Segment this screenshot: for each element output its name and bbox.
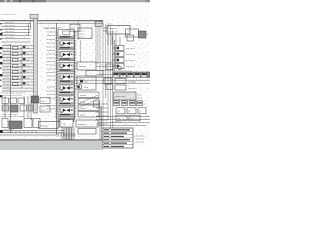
switch diagonal: [20, 65, 23, 68]
terminal mark: [0, 80, 2, 81]
right wide top box: [107, 26, 130, 35]
connector box: [13, 71, 19, 74]
wire: [2, 60, 34, 62]
left vertical bus: [10, 44, 12, 133]
right small top box: [95, 22, 102, 27]
wire: [2, 51, 34, 53]
center box J: [78, 129, 96, 135]
relay blob: [23, 58, 26, 61]
top-left wire group: [1, 24, 31, 43]
valve unit 4: [58, 73, 74, 83]
connector box: [13, 52, 19, 55]
window top bar: [0, 0, 150, 2]
valve unit 0: [58, 29, 74, 39]
wire: [2, 45, 34, 47]
bottom center box: [39, 122, 59, 129]
valve unit 7: [58, 107, 74, 117]
stack right rail ticks: [74, 31, 77, 118]
wire: [76, 76, 150, 78]
wire: [2, 57, 34, 59]
stack bottom drop wires: [62, 127, 74, 139]
panel inner top line: [36, 22, 103, 24]
relay blob: [23, 70, 26, 73]
stack left rail ticks: [55, 31, 58, 118]
svg-text:xxx xxxx xxx xxxx: xxx xxxx xxx xxxx: [1, 14, 17, 16]
page background: [0, 0, 150, 150]
wire: [105, 24, 107, 98]
end unit bar: [60, 119, 70, 120]
left small box: [40, 98, 50, 104]
stack end unit: [58, 118, 74, 122]
center box C: [86, 71, 103, 77]
connector box: [13, 59, 19, 62]
wire: [96, 116, 150, 118]
connector tick row: [103, 28, 120, 45]
long wire: [0, 132, 64, 134]
stack stub wires: [59, 122, 62, 128]
box row 1: [2, 98, 25, 104]
relay blob: [23, 46, 26, 49]
switch diagonal: [20, 47, 23, 50]
switch diagonal: [20, 71, 23, 74]
center box B: [77, 62, 96, 70]
band top connector box: [30, 14, 38, 18]
blob: [80, 80, 83, 82]
wire: [2, 66, 34, 68]
row box: [115, 79, 126, 84]
wire: [77, 21, 79, 40]
dark unit: [31, 96, 39, 103]
motor circle: [78, 85, 82, 89]
valve unit 1: [58, 40, 74, 50]
wire: [112, 30, 114, 140]
terminal mark: [0, 29, 2, 30]
row box: [115, 85, 126, 90]
valve unit 2: [58, 51, 74, 61]
relay blob: [23, 76, 26, 79]
legend table: [103, 128, 133, 148]
small box: [106, 64, 113, 70]
small box: [106, 84, 113, 90]
right verticals: [113, 36, 115, 71]
gray wide box: [114, 92, 137, 100]
small left box: [94, 101, 100, 107]
wire: [107, 26, 109, 120]
wire: [2, 63, 34, 65]
switch diagonal: [20, 77, 23, 80]
wire: [1, 32, 31, 34]
terminal square: [0, 130, 3, 133]
wire: [1, 35, 31, 37]
svg-text:xxxx xxxx: xxxx xxxx: [136, 142, 145, 144]
relay blob: [23, 52, 26, 55]
tick row above border: [57, 133, 75, 137]
left small box 2: [40, 106, 50, 112]
hatched block: [9, 121, 22, 129]
valve unit 6: [58, 96, 74, 106]
terminal mark: [0, 68, 2, 69]
cluster verticals: [5, 96, 31, 120]
switch diagonal: [20, 83, 23, 86]
wire: [2, 78, 34, 80]
schematic bottom border: [0, 139, 103, 141]
sensor row 3: [112, 58, 135, 63]
box row 2: [2, 105, 9, 111]
tick wires: [96, 62, 113, 74]
diagonal wire: [78, 95, 98, 104]
blob: [78, 86, 80, 88]
terminal square: [0, 33, 2, 35]
switch diagonal: [20, 53, 23, 56]
wire: [2, 81, 34, 83]
sensor row 1: [112, 46, 135, 51]
center vertical wires: [78, 21, 113, 140]
long wire: [0, 134, 56, 136]
panel-edge gray band: [34, 17, 38, 113]
connector box: [13, 46, 19, 49]
connector box: [13, 83, 19, 86]
stack right rail: [74, 30, 76, 120]
center cluster box: [77, 76, 96, 90]
bottom margin strip: [0, 141, 103, 150]
wire: [95, 21, 97, 64]
relay blob: [23, 82, 26, 85]
wire: [2, 84, 34, 86]
terminal mark: [0, 86, 2, 87]
center row boxes: [78, 92, 99, 117]
wire: [1, 23, 31, 25]
terminal square: [0, 62, 2, 64]
wire: [2, 72, 34, 74]
wire: [2, 69, 34, 71]
relay blob: [23, 64, 26, 67]
small box: [104, 78, 112, 84]
switch diagonal: [20, 59, 23, 62]
box: [33, 119, 40, 128]
wire end hooks: [29, 21, 31, 36]
wire: [102, 21, 104, 140]
wire: [1, 38, 31, 40]
wire: [1, 29, 31, 31]
terminal mark: [0, 53, 2, 54]
right top dark box: [139, 31, 147, 38]
bottom center box 2: [60, 120, 73, 128]
dark row 2: [114, 101, 143, 106]
wire: [99, 21, 101, 76]
right top lower box: [127, 35, 134, 41]
wire: [1, 41, 31, 43]
wire: [2, 90, 34, 92]
box: [24, 119, 32, 128]
sensor row 4: [112, 64, 135, 69]
wire: [1, 26, 31, 28]
bottom verticals: [64, 106, 102, 140]
center box A: [78, 28, 92, 39]
dark connector row: [113, 72, 147, 78]
wire: [76, 82, 150, 84]
left blob column line: [21, 46, 23, 88]
wire: [80, 40, 82, 62]
stack left rail: [56, 23, 58, 135]
center wide box I: [76, 120, 98, 127]
wire: [96, 119, 150, 121]
bottom ticks: [8, 131, 36, 133]
diagonal wire: [78, 99, 98, 108]
terminal square: [0, 47, 2, 49]
right top overlap box: [126, 29, 139, 37]
row end box: [147, 72, 150, 78]
wire: [2, 87, 34, 89]
wire: [2, 75, 34, 77]
title side box: [70, 24, 80, 31]
long wire: [0, 130, 64, 132]
branch ticks: [96, 104, 108, 124]
main panel top line: [0, 20, 103, 22]
terminal mark: [0, 23, 2, 24]
boxes row: [116, 108, 146, 121]
box: [2, 119, 8, 128]
terminal square: [0, 74, 2, 76]
sensor row 2: [112, 52, 135, 57]
wire: [97, 23, 99, 64]
wire: [110, 26, 112, 133]
valve unit 5: [58, 85, 74, 95]
wire: [2, 54, 34, 56]
terminal square: [0, 56, 2, 58]
wire: [76, 79, 150, 81]
valve unit 3: [58, 62, 74, 72]
connector box: [13, 65, 19, 68]
lines above table: [98, 123, 150, 126]
terminal mark: [0, 38, 2, 39]
terminal square: [0, 95, 2, 97]
connector box: [13, 77, 19, 80]
gauge circle: [118, 66, 122, 70]
wire: [2, 48, 34, 50]
